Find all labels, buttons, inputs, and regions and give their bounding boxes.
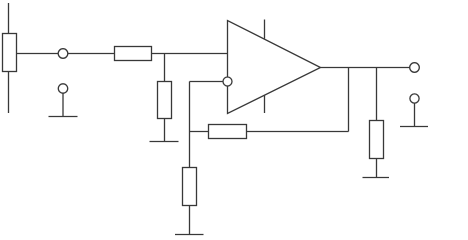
wire feedback riser to output: [348, 68, 350, 132]
wire output down to R6: [376, 68, 378, 121]
node input reference terminal: [58, 84, 67, 93]
node output terminal: [410, 63, 420, 73]
ground (below input reference terminal): [49, 116, 78, 118]
ground (below output reference terminal): [400, 126, 428, 128]
wire R6 to ground: [376, 159, 378, 178]
node output reference terminal: [410, 94, 419, 103]
wire node to R4: [190, 131, 209, 133]
wire feedback node vertical: [189, 82, 191, 168]
resistor R3 (vertical to ground): [158, 82, 172, 119]
wire junction down to R3: [164, 54, 166, 82]
node inverting input (open circle): [223, 77, 232, 86]
ground (below R5): [175, 234, 204, 236]
wire R1 tap to input terminal: [17, 53, 59, 55]
wire output reference terminal to ground: [414, 103, 416, 126]
resistor R5 (bottom vertical, gain set): [183, 168, 197, 206]
resistor R6 (load, vertical): [370, 121, 384, 159]
wire op-amp output to output terminal: [321, 67, 410, 69]
wire terminal to ground: [62, 93, 64, 116]
wire R1 top lead: [8, 3, 10, 34]
wire R3 to ground: [164, 119, 166, 142]
wire R2 to op-amp noninverting input: [152, 53, 228, 55]
node input terminal: [58, 49, 68, 59]
resistor R4 (feedback, horizontal): [209, 125, 247, 139]
wire R4 to output tap: [247, 131, 349, 133]
op-amp U1: [228, 21, 321, 114]
pin V- (bottom power): [264, 95, 266, 113]
resistor R2 (horizontal series): [115, 47, 152, 61]
wire inverting input to feedback node: [190, 81, 224, 83]
ground (below R6): [363, 177, 390, 179]
wire R5 to ground: [189, 206, 191, 235]
ground (below R3): [150, 141, 179, 143]
pin V+ (top power): [264, 20, 266, 39]
wire R1 bottom lead: [8, 72, 10, 114]
resistor R1 (left vertical, input source): [3, 34, 17, 72]
wire input terminal to R2: [68, 53, 115, 55]
